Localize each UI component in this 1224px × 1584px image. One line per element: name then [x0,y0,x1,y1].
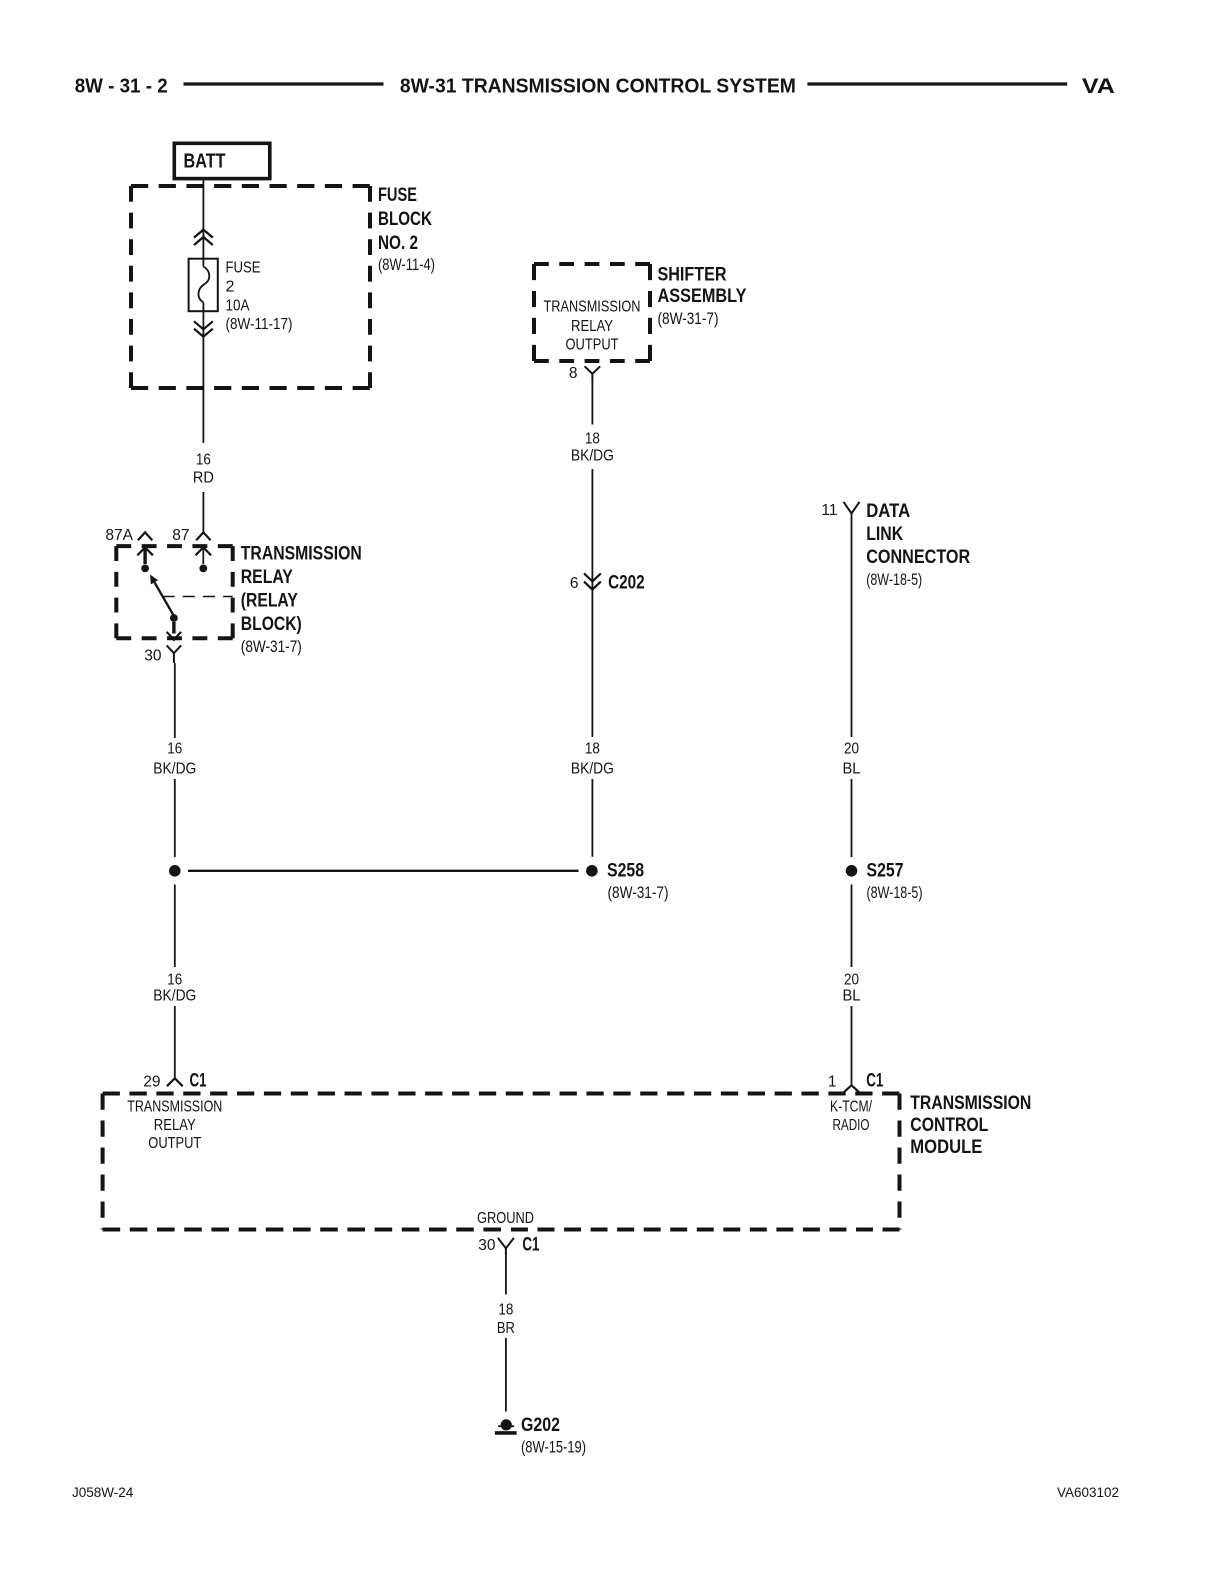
svg-text:(8W-11-4): (8W-11-4) [378,256,435,274]
svg-text:CONNECTOR: CONNECTOR [866,547,970,568]
svg-text:RADIO: RADIO [833,1117,870,1134]
svg-text:87: 87 [172,527,189,544]
svg-text:BL: BL [843,761,861,778]
fuse block label [378,185,432,254]
wire BATT to fuse [202,179,204,267]
wire into S258 [591,779,593,857]
splice S258 horizontal wire [188,870,579,872]
splice S258 dot [586,865,598,877]
svg-text:BK/DG: BK/DG [571,761,614,778]
TCM dashed box [103,1094,900,1230]
connector chevrons out of fuse block [194,321,213,336]
svg-text:29: 29 [143,1074,160,1091]
svg-text:87A: 87A [105,527,133,544]
svg-text:BR: BR [497,1320,515,1337]
svg-text:G202: G202 [521,1415,560,1436]
svg-text:OUTPUT: OUTPUT [148,1135,201,1152]
svg-text:VA603102: VA603102 [1057,1485,1119,1500]
svg-text:C1: C1 [522,1235,539,1256]
wire label 18 BK/DG mid [571,741,614,778]
svg-text:BLOCK): BLOCK) [241,614,302,635]
svg-text:(8W-31-7): (8W-31-7) [608,884,669,902]
svg-text:30: 30 [144,648,162,665]
pin 29 connector fork [167,1078,183,1086]
svg-text:10A: 10A [226,298,250,315]
svg-text:(8W-11-17): (8W-11-17) [226,316,293,333]
wire relay pin30 down [174,663,176,738]
svg-text:2: 2 [226,279,235,296]
wire into S257 [851,779,853,857]
svg-text:S258: S258 [607,861,644,882]
svg-text:TRANSMISSION: TRANSMISSION [910,1093,1031,1114]
svg-text:BLOCK: BLOCK [378,209,432,230]
svg-text:TRANSMISSION: TRANSMISSION [241,544,362,565]
svg-text:8W - 31 - 2: 8W - 31 - 2 [75,76,168,98]
svg-text:20: 20 [844,972,859,989]
TCM label [910,1093,1031,1158]
svg-text:18: 18 [585,741,600,758]
svg-text:VA: VA [1082,75,1115,98]
svg-text:(8W-15-19): (8W-15-19) [521,1439,586,1457]
svg-text:MODULE: MODULE [910,1137,982,1158]
svg-text:J058W-24: J058W-24 [72,1485,134,1500]
wire to TCM pin 1 [851,1006,853,1085]
svg-text:S257: S257 [867,861,904,882]
svg-text:NO. 2: NO. 2 [378,233,418,254]
svg-text:30: 30 [478,1237,496,1254]
svg-text:RELAY: RELAY [571,318,613,335]
svg-text:K-TCM/: K-TCM/ [830,1099,873,1116]
svg-text:BK/DG: BK/DG [153,988,196,1005]
wire label 18 BR [497,1302,515,1338]
pin 30 female connector Y bottom [498,1238,514,1256]
wire to ground G202 [505,1338,507,1412]
relay pin 30 terminal [167,614,181,640]
wire label 16 BK/DG [153,741,196,778]
svg-text:6: 6 [570,575,579,592]
svg-text:C1: C1 [190,1071,207,1092]
svg-text:ASSEMBLY: ASSEMBLY [658,286,747,307]
TCM pin 29 inner text [127,1099,222,1153]
svg-text:BATT: BATT [184,151,226,173]
svg-text:CONTROL: CONTROL [910,1115,988,1136]
svg-text:(8W-31-7): (8W-31-7) [658,310,719,328]
wire to splice S258 [174,779,176,857]
TCM pin 1 inner text [830,1099,873,1135]
connector chevrons into fuse block [194,230,213,245]
shifter assembly dashed box [534,264,650,361]
svg-text:TRANSMISSION: TRANSMISSION [544,299,641,316]
data link connector pin 11 Y [844,502,860,514]
svg-text:RD: RD [193,470,214,487]
wire label 18 BK/DG upper [571,430,614,464]
battery feed box BATT [174,143,269,178]
ground wire down [505,1255,507,1294]
svg-text:(8W-18-5): (8W-18-5) [866,571,922,589]
svg-text:11: 11 [821,502,837,519]
fuse value labels [226,260,293,334]
svg-text:8W-31 TRANSMISSION CONTROL SYS: 8W-31 TRANSMISSION CONTROL SYSTEM [400,76,796,98]
svg-text:BK/DG: BK/DG [153,761,196,778]
svg-text:20: 20 [844,741,859,758]
pin 87A male chevron [138,532,152,540]
data link connector label [866,501,970,568]
wire shifter down [591,382,593,425]
transmission relay dashed box [116,546,232,638]
shifter box inner text [544,299,641,354]
svg-text:C202: C202 [608,573,645,594]
svg-text:18: 18 [585,430,600,447]
svg-text:FUSE: FUSE [378,185,417,206]
wire fuse to relay pin 87 [202,303,204,444]
wire label 16 BK/DG lower [153,972,196,1005]
relay switch arm [150,575,174,617]
fuse block no.2 dashed box [131,186,370,388]
svg-text:SHIFTER: SHIFTER [658,265,727,286]
splice S257 dot [846,865,858,877]
svg-text:TRANSMISSION: TRANSMISSION [127,1099,222,1116]
splice junction dot left [169,865,181,877]
pin 1 connector fork [844,1085,860,1092]
svg-text:16: 16 [167,741,182,758]
svg-text:(RELAY: (RELAY [241,591,298,612]
wire through C202 [591,469,593,737]
pin 8 female connector Y [585,366,601,381]
header rule left [184,82,384,85]
svg-text:LINK: LINK [866,524,903,545]
svg-text:1: 1 [828,1074,837,1091]
wire label 20 BL lower [843,972,861,1005]
wire S258 down [174,885,176,968]
relay internal dashed divider [163,596,233,598]
svg-text:16: 16 [196,452,211,469]
pin 87 male chevron [196,532,210,540]
header rule right [807,82,1067,85]
svg-text:8: 8 [569,365,578,382]
svg-text:BK/DG: BK/DG [571,448,614,465]
connector C202 chevrons [584,573,601,589]
svg-text:C1: C1 [866,1071,883,1092]
svg-text:RELAY: RELAY [241,567,293,588]
relay pin 87A terminal [137,547,153,572]
svg-text:FUSE: FUSE [226,260,261,277]
wire label 16 RD [193,452,214,487]
svg-text:GROUND: GROUND [477,1210,534,1227]
fuse F2 10A [189,259,218,312]
svg-text:(8W-31-7): (8W-31-7) [241,638,302,656]
svg-text:18: 18 [498,1302,513,1319]
wire S257 down [851,885,853,968]
wire to pin 87 [202,492,204,532]
svg-text:(8W-18-5): (8W-18-5) [867,884,923,902]
svg-text:DATA: DATA [866,501,910,522]
wire to TCM pin 29 [174,1006,176,1078]
wire label 20 BL upper [843,741,861,778]
wire DLC down [851,513,853,737]
svg-text:OUTPUT: OUTPUT [566,337,619,354]
svg-text:RELAY: RELAY [154,1117,196,1134]
svg-text:BL: BL [843,988,861,1005]
relay pin 87 terminal [196,547,212,572]
svg-text:16: 16 [167,972,182,989]
ground G202 symbol [495,1419,517,1433]
pin 30 female connector Y [167,645,181,663]
shifter assembly label [658,265,747,308]
relay label [241,544,362,636]
